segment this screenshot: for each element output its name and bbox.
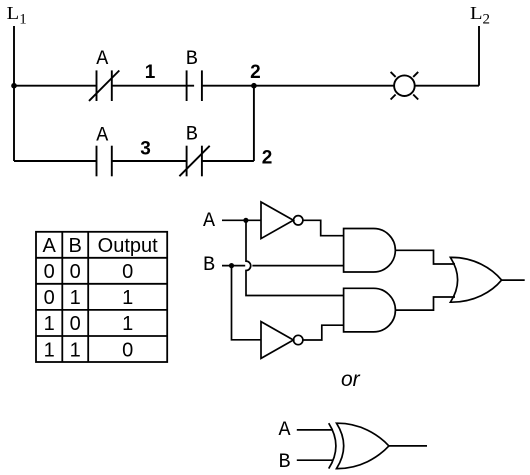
svg-text:1: 1 (44, 313, 55, 335)
svg-text:Output: Output (98, 235, 158, 257)
svg-text:B: B (186, 48, 198, 71)
svg-text:0: 0 (122, 339, 133, 361)
svg-text:0: 0 (70, 313, 81, 335)
svg-text:A: A (278, 419, 290, 442)
svg-text:3: 3 (140, 138, 151, 159)
svg-text:A: A (96, 48, 108, 71)
svg-text:1: 1 (70, 287, 81, 309)
svg-text:B: B (278, 451, 290, 474)
svg-text:B: B (186, 123, 198, 146)
svg-text:B: B (203, 254, 215, 277)
svg-text:A: A (43, 235, 57, 257)
svg-text:2: 2 (262, 148, 273, 169)
svg-text:B: B (69, 235, 82, 257)
svg-text:2: 2 (250, 62, 261, 83)
svg-text:1: 1 (70, 339, 81, 361)
svg-text:0: 0 (122, 261, 133, 283)
svg-text:1: 1 (145, 62, 156, 83)
svg-text:or: or (341, 368, 361, 391)
svg-text:A: A (96, 125, 108, 148)
svg-text:A: A (203, 210, 215, 233)
svg-text:1: 1 (44, 339, 55, 361)
svg-text:1: 1 (122, 313, 133, 335)
svg-text:0: 0 (70, 261, 81, 283)
svg-text:0: 0 (44, 261, 55, 283)
svg-text:1: 1 (122, 287, 133, 309)
svg-text:0: 0 (44, 287, 55, 309)
